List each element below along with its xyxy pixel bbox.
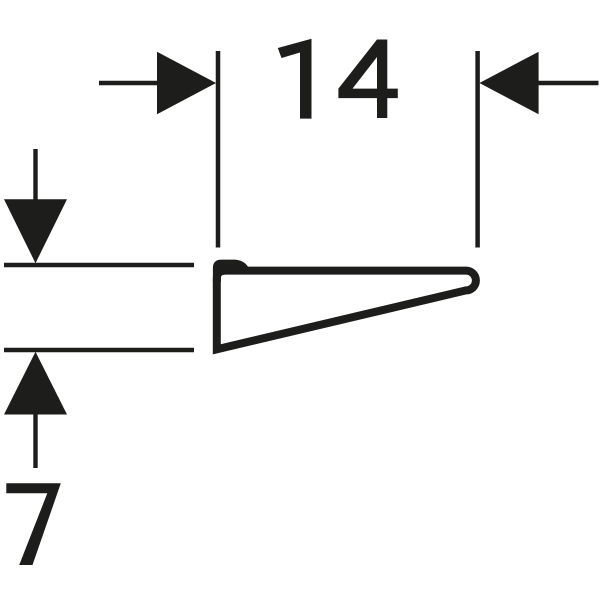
dimension text digit 1 [278,39,312,119]
dimension leader line bottom (7) [33,412,37,468]
arrowhead left pointing right (14) [157,52,216,114]
arrowhead down (7) [4,199,67,263]
dimension text digit 7 [6,483,61,565]
extension line right (14) [475,51,480,248]
dimension text digit 4 [338,40,397,119]
profile outline (wedge cross-section) [217,271,476,350]
extension line upper (7) [4,263,194,267]
arrowhead up (7) [4,352,67,415]
dimension leader line left (14) [99,81,160,85]
dimension leader line top (7) [33,149,37,202]
extension line left (14) [216,51,221,248]
arrowhead right pointing left (14) [479,52,538,114]
dimension leader line right (14) [536,81,599,85]
profile bead bump top-left [213,260,249,282]
extension line lower (7) [4,348,194,352]
